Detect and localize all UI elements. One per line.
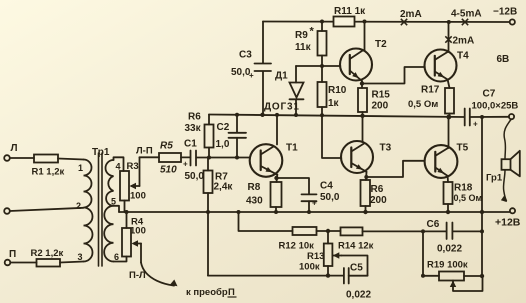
svg-text:−12В: −12В	[493, 7, 517, 18]
svg-text:33к: 33к	[185, 123, 202, 134]
svg-text:С3: С3	[239, 50, 252, 61]
svg-text:11к: 11к	[295, 42, 312, 53]
svg-text:Т5: Т5	[457, 143, 469, 154]
svg-text:R13: R13	[307, 251, 324, 262]
svg-text:Т2: Т2	[375, 39, 387, 50]
svg-text:1к: 1к	[328, 98, 340, 109]
svg-text:П-Л: П-Л	[129, 270, 146, 281]
svg-text:Л-П: Л-П	[136, 146, 153, 157]
svg-text:R8: R8	[248, 182, 261, 193]
svg-text:С7: С7	[483, 89, 496, 100]
svg-text:+: +	[249, 71, 254, 80]
svg-text:R2 1,2к: R2 1,2к	[31, 248, 64, 259]
svg-text:R1 1,2к: R1 1,2к	[32, 167, 65, 178]
svg-text:100: 100	[130, 226, 146, 237]
svg-text:100: 100	[130, 191, 146, 202]
svg-text:R5: R5	[160, 141, 173, 152]
svg-text:5: 5	[111, 197, 116, 207]
svg-text:4: 4	[116, 162, 121, 172]
svg-text:50,0: 50,0	[320, 192, 340, 203]
svg-text:П: П	[9, 249, 16, 260]
svg-text:R3: R3	[127, 161, 139, 172]
svg-text:R10: R10	[328, 85, 347, 96]
svg-text:R6: R6	[371, 184, 384, 195]
svg-text:R9: R9	[295, 30, 308, 41]
svg-text:200: 200	[372, 101, 389, 112]
svg-text:0,5 Ом: 0,5 Ом	[454, 193, 483, 203]
svg-text:С2: С2	[217, 122, 230, 133]
svg-text:+12В: +12В	[495, 217, 521, 229]
svg-text:0,022: 0,022	[437, 244, 462, 255]
svg-text:0,022: 0,022	[346, 290, 371, 301]
svg-text:+: +	[312, 199, 317, 208]
svg-text:R14 12к: R14 12к	[338, 241, 374, 252]
svg-text:Л: Л	[11, 143, 18, 154]
svg-text:100,0×25В: 100,0×25В	[472, 101, 519, 112]
svg-text:R11 1к: R11 1к	[334, 6, 366, 17]
svg-text:R17: R17	[421, 85, 440, 96]
svg-text:С4: С4	[320, 181, 333, 192]
svg-text:1: 1	[78, 163, 83, 173]
svg-text:100к: 100к	[299, 262, 320, 273]
svg-text:П: П	[228, 287, 235, 298]
svg-text:Тр1: Тр1	[92, 147, 110, 158]
svg-text:50,0: 50,0	[185, 171, 205, 182]
svg-text:R6: R6	[188, 112, 201, 123]
svg-text:4-5mA: 4-5mA	[451, 9, 482, 20]
svg-text:+: +	[473, 120, 478, 129]
svg-text:С5: С5	[350, 263, 363, 274]
svg-text:6В: 6В	[497, 54, 510, 65]
svg-text:ДОГ31: ДОГ31	[264, 102, 300, 113]
svg-text:3: 3	[78, 252, 83, 262]
svg-text:200: 200	[370, 195, 387, 206]
svg-text:R18: R18	[454, 183, 473, 194]
svg-text:R19 100к: R19 100к	[427, 260, 468, 271]
svg-text:Т4: Т4	[457, 51, 469, 62]
svg-text:430: 430	[246, 196, 263, 207]
svg-text:0,5 Ом: 0,5 Ом	[408, 99, 438, 110]
svg-text:Т1: Т1	[286, 143, 298, 154]
svg-text:R15: R15	[372, 90, 391, 101]
svg-text:Гр1: Гр1	[486, 173, 503, 184]
svg-text:2mA: 2mA	[400, 9, 422, 20]
svg-text:*: *	[310, 26, 315, 38]
svg-text:+: +	[183, 160, 188, 169]
svg-text:2: 2	[76, 201, 81, 211]
svg-text:6: 6	[114, 252, 119, 262]
svg-text:С1: С1	[184, 139, 197, 150]
svg-text:Т3: Т3	[380, 143, 392, 154]
svg-text:2mA: 2mA	[453, 36, 475, 47]
svg-text:510: 510	[160, 165, 177, 176]
svg-text:к преобр: к преобр	[186, 287, 228, 298]
svg-text:1,0: 1,0	[216, 139, 230, 150]
svg-text:50,0: 50,0	[231, 67, 251, 78]
svg-text:2,4к: 2,4к	[214, 182, 234, 193]
svg-text:R12 10к: R12 10к	[279, 241, 315, 252]
svg-text:С6: С6	[427, 219, 440, 230]
svg-text:Д1: Д1	[275, 71, 288, 82]
